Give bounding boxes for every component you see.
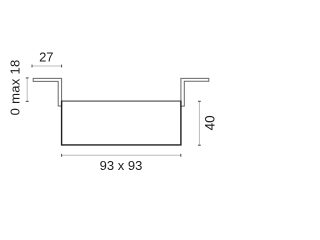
- svg-text:40: 40: [203, 115, 218, 130]
- dimension line 40: [198, 101, 200, 145]
- svg-text:93 x 93: 93 x 93: [100, 158, 143, 173]
- svg-text:0 max 18: 0 max 18: [8, 59, 23, 115]
- housing box: [62, 101, 181, 145]
- dimension line 0 max 18: [26, 78, 28, 102]
- dimension line 27: [32, 65, 62, 67]
- dimension line 93 x 93: [62, 154, 181, 156]
- left trim flange profile: [33, 78, 61, 106]
- svg-text:27: 27: [39, 49, 53, 64]
- ceiling line: [62, 100, 181, 102]
- right trim flange profile: [181, 78, 209, 106]
